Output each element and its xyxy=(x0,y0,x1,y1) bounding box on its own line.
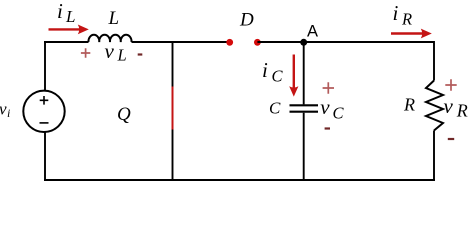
diode D open switch: left contact dot xyxy=(226,39,233,46)
wire: capacitor branch lower xyxy=(303,113,305,181)
svg-text:L: L xyxy=(117,46,127,65)
wire: left rail lower xyxy=(44,132,46,181)
node A junction dot xyxy=(300,39,307,46)
diode D open switch: right contact dot xyxy=(254,39,261,46)
switch Q branch upper wire xyxy=(172,42,174,87)
voltage polarity - for vC xyxy=(325,127,330,129)
svg-text:Q: Q xyxy=(117,104,131,125)
voltage source plus sign xyxy=(40,96,49,105)
svg-text:v: v xyxy=(0,100,7,119)
svg-text:A: A xyxy=(307,23,318,41)
resistor R zigzag xyxy=(426,81,443,131)
svg-text:i: i xyxy=(57,0,63,23)
inductor L xyxy=(88,35,131,42)
wire: left rail upper xyxy=(44,41,46,91)
wire: top middle segment (inductor to diode) xyxy=(132,41,230,43)
svg-text:v: v xyxy=(320,95,330,119)
current arrow iC xyxy=(289,55,298,97)
wire: top-left horizontal segment xyxy=(44,41,89,43)
svg-text:i: i xyxy=(393,1,399,25)
svg-text:C: C xyxy=(272,66,284,85)
wire: right rail lower xyxy=(433,131,435,182)
capacitor C plates xyxy=(290,105,319,111)
switch Q branch lower wire xyxy=(172,130,174,181)
svg-text:i: i xyxy=(262,58,268,82)
voltage source vi circle xyxy=(23,91,64,132)
svg-text:R: R xyxy=(401,9,412,28)
svg-text:i: i xyxy=(7,106,10,120)
voltage polarity - for vL xyxy=(138,53,143,55)
voltage source minus sign xyxy=(40,122,49,124)
voltage polarity - for vR xyxy=(448,138,454,140)
wire: right rail upper xyxy=(433,41,435,81)
svg-text:C: C xyxy=(333,104,345,123)
svg-text:L: L xyxy=(108,8,120,29)
wire: capacitor branch upper xyxy=(303,42,305,104)
wire: bottom rail xyxy=(44,179,435,181)
voltage polarity + for vR xyxy=(445,79,456,90)
wire: top right segment (diode to right corner) xyxy=(257,41,434,43)
svg-text:C: C xyxy=(269,99,281,118)
svg-text:v: v xyxy=(444,94,454,118)
voltage polarity + for vC xyxy=(323,82,334,93)
svg-text:D: D xyxy=(239,10,254,31)
svg-text:L: L xyxy=(65,7,75,26)
svg-text:R: R xyxy=(403,95,415,115)
current arrow iL xyxy=(49,25,89,35)
switch Q red segment xyxy=(172,87,174,130)
current arrow iR xyxy=(391,29,432,39)
voltage polarity + for vL xyxy=(81,48,90,57)
svg-text:v: v xyxy=(105,39,115,63)
svg-text:R: R xyxy=(456,101,468,121)
